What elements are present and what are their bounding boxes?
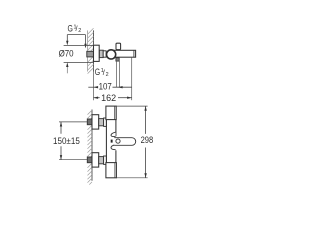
black marker dot (111, 140, 113, 143)
wall face extension line (93, 72, 95, 101)
svg-text:298: 298 (141, 135, 154, 145)
knob neck (116, 49, 118, 52)
svg-text:150±15: 150±15 (53, 136, 80, 146)
lower lip of handle (111, 145, 116, 150)
svg-text:2: 2 (78, 28, 81, 34)
dimension 298 (116, 106, 147, 178)
inlet boss 1 (104, 118, 107, 126)
shower outlet extension lines (115, 61, 117, 87)
handle button (116, 139, 120, 143)
svg-text:G: G (95, 67, 101, 77)
diverter knob on top (116, 43, 121, 49)
dimension 162 (94, 97, 132, 99)
svg-text:G: G (68, 23, 74, 33)
inlet pipe 1 behind wall (87, 119, 92, 125)
shower outlet stub (116, 58, 119, 61)
svg-text:Ø70: Ø70 (59, 49, 74, 59)
union nut 2 (99, 157, 104, 164)
inlet pipe behind wall (87, 51, 94, 57)
dimension 150±15 (59, 122, 88, 160)
escutcheon flange (side) (94, 45, 100, 61)
union nut (99, 50, 103, 57)
body bottom cap (106, 163, 117, 178)
body bar (mixer body, side) (113, 50, 136, 57)
body end cap line (133, 50, 135, 57)
spout outlet extension line (131, 57, 133, 100)
upper lip of handle (111, 132, 116, 136)
dimension D70 arrows (64, 35, 94, 74)
dimension 107 (88, 86, 131, 88)
spacer sleeve (103, 51, 106, 57)
wall face line (91, 110, 93, 181)
svg-text:2: 2 (106, 72, 109, 78)
escutcheon 2 (92, 153, 99, 167)
body top cap (106, 106, 116, 120)
union nut 1 (99, 119, 104, 126)
svg-text:107: 107 (99, 81, 112, 91)
wall hatching (88, 110, 93, 185)
inlet boss 2 (104, 156, 107, 164)
body column (105, 120, 107, 163)
wall section (hatched band) (88, 30, 94, 71)
escutcheon 1 (92, 115, 99, 129)
ball joint (107, 50, 116, 59)
svg-text:162: 162 (101, 93, 116, 103)
inlet pipe 2 behind wall (87, 157, 92, 163)
wall hatching (88, 28, 94, 73)
lever handle (pill) (114, 138, 135, 146)
leader G 1/2 (67, 35, 85, 45)
